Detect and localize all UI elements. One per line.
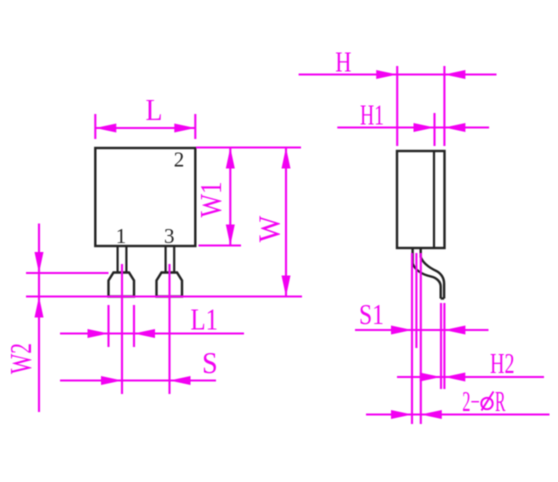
dimension S arrows [101, 376, 191, 385]
dimension W line [285, 148, 287, 297]
dimension L1 arrows [88, 329, 156, 338]
dimension 2-R line [366, 413, 550, 415]
extension line foot top left [26, 272, 109, 274]
svg-text:H2: H2 [490, 349, 515, 380]
package body side view [397, 151, 445, 248]
svg-text:R: R [495, 387, 506, 418]
dimension W2 arrows [35, 252, 44, 318]
dimension L arrows [95, 124, 195, 133]
foot pad pin3 [157, 273, 183, 297]
lead pin3 [166, 246, 175, 273]
dimension W arrows [282, 148, 291, 297]
side view inner line [433, 151, 435, 248]
dimension W1 arrows [226, 148, 235, 246]
svg-text:L: L [146, 92, 163, 127]
dimension 2-R arrows [391, 410, 442, 419]
centerline pin1 [121, 264, 123, 394]
dimension L1 extension lines [109, 305, 135, 347]
svg-text:3: 3 [164, 224, 175, 248]
bent tip right extension [443, 303, 445, 389]
dimension H2 arrows [420, 373, 466, 382]
dimension H1 arrows [414, 123, 466, 132]
dimension S1 arrows [391, 326, 465, 335]
dimension H2 line [397, 376, 544, 378]
dimension H1 extension line [433, 113, 435, 146]
svg-text:S1: S1 [359, 300, 384, 331]
dimension L extension lines [95, 114, 195, 139]
extension line feet bottom [26, 295, 302, 297]
extension line body bottom right [199, 244, 242, 246]
svg-text:W2: W2 [3, 343, 38, 374]
dimension S1 line [355, 329, 489, 331]
lead centerline extension [415, 253, 417, 348]
foot pad pin1 [109, 273, 135, 297]
svg-text:2−: 2− [462, 387, 480, 418]
bent lead outer edge [413, 248, 441, 299]
svg-text:H1: H1 [360, 101, 384, 132]
dimension W2 line [38, 224, 40, 413]
dimension H line [299, 73, 497, 75]
lead left edge extension [411, 253, 413, 424]
dimension L line [95, 127, 195, 129]
dimension H extension lines [397, 66, 444, 146]
svg-text:S: S [202, 345, 218, 380]
package body front view [95, 148, 195, 246]
lead pin1 [118, 246, 127, 273]
svg-text:W1: W1 [193, 182, 228, 218]
lead right edge extension [420, 253, 422, 424]
svg-text:H: H [335, 48, 351, 79]
dimension H1 line [337, 126, 489, 128]
dimension L1 line [60, 332, 244, 334]
svg-text:W: W [252, 215, 287, 242]
svg-text:2: 2 [174, 148, 185, 172]
svg-text:1: 1 [116, 224, 127, 248]
bent lead tip cap [441, 297, 444, 299]
svg-text:L1: L1 [191, 302, 219, 337]
dimension W1 line [229, 148, 231, 246]
centerline pin3 [168, 264, 170, 394]
bent lead inner edge [421, 248, 444, 299]
dimension S line [60, 379, 216, 381]
extension line body top right [196, 146, 301, 148]
bent tip left extension [440, 303, 442, 389]
dimension H arrows [376, 70, 465, 79]
